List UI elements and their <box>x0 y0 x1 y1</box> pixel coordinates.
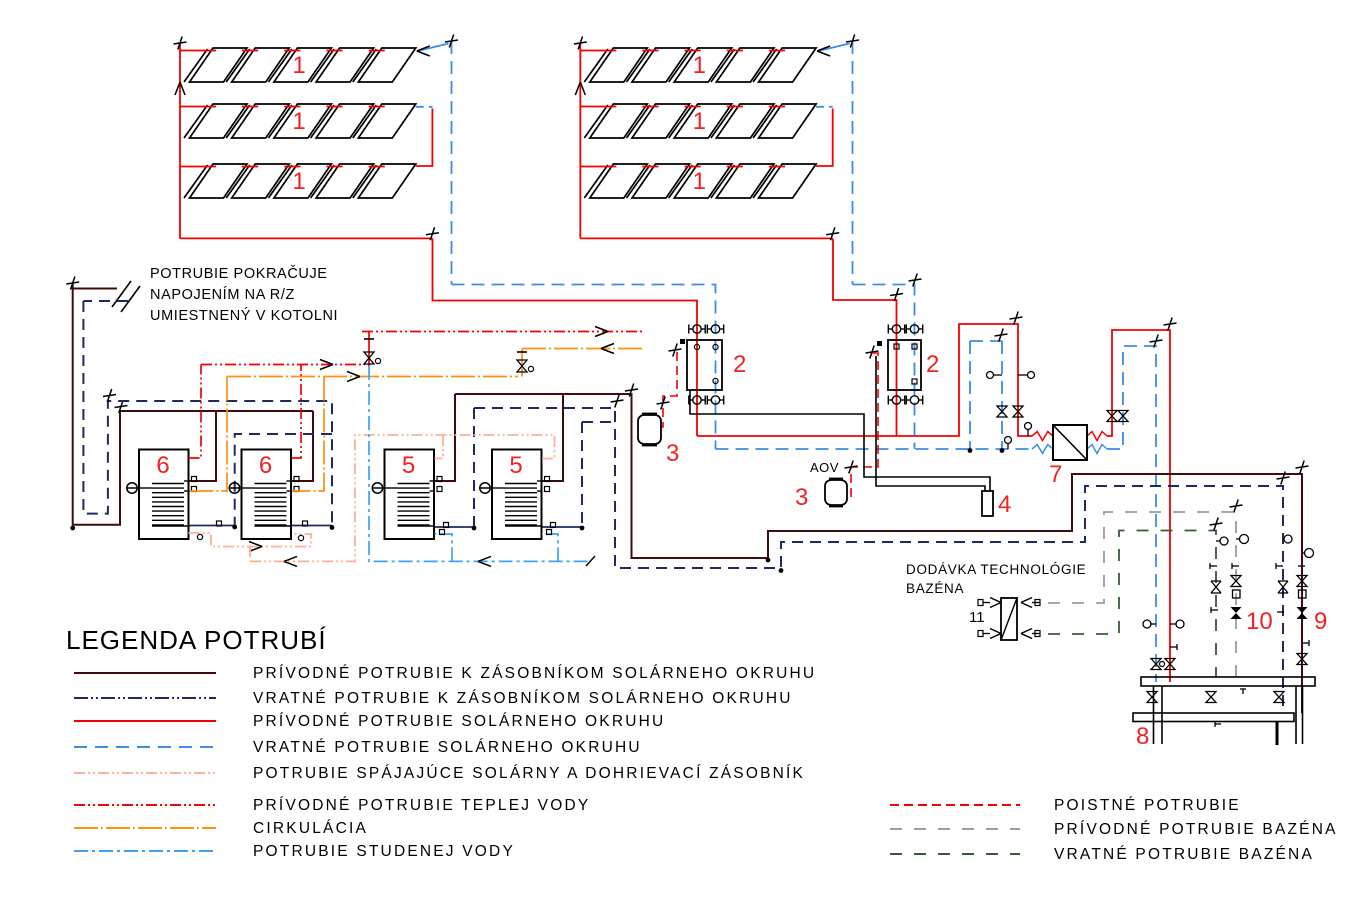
node: cross at red corner near U2b <box>890 288 903 301</box>
node: cross maroon top-left <box>66 277 79 290</box>
wire: circulation riser to tank T6a <box>189 377 228 492</box>
node: cross on blue pipe right of U7 <box>1150 335 1163 348</box>
label 11 <box>969 609 985 626</box>
flow arrow right hot water out <box>595 327 608 337</box>
label 1 row A2 <box>292 108 305 135</box>
svg-text:5: 5 <box>509 452 522 479</box>
svg-text:3: 3 <box>666 440 679 467</box>
collector field B: red supply riser <box>579 43 581 238</box>
red supply stub to row B2 <box>580 106 616 108</box>
node: cross on blue bypass <box>995 329 1008 342</box>
collector row B3 (5 panels, ref 1) <box>584 164 816 198</box>
valve on red pool pipe <box>1160 659 1176 670</box>
valve on blue pool pipe <box>1151 659 1161 670</box>
wire: red safety pipe U2a to expansion vessel V3a <box>662 352 678 427</box>
flow arrow left cold water <box>478 556 491 566</box>
wire: red solar supply, left array down to exchanger U2a <box>433 238 698 436</box>
node: junction dots blue bypass <box>968 448 1005 453</box>
node: dot navy jog <box>779 568 784 573</box>
wire: hot water line to building <box>362 331 645 333</box>
end tick cold water <box>586 556 595 566</box>
node: cross top of red riser B <box>574 37 587 50</box>
sensor circles at U7 left <box>1005 423 1032 450</box>
node: cross maroon corner <box>115 400 128 413</box>
tee symbol on red pool pipe <box>1170 644 1177 650</box>
red collector outlet bottom B <box>580 237 832 239</box>
svg-text:8: 8 <box>1136 723 1149 750</box>
red supply stub to row B3 <box>580 166 616 168</box>
legend title <box>66 625 327 655</box>
sensor cross at U2b left <box>866 341 883 359</box>
legend row: PRÍVODNÉ POTRUBIE SOLÁRNEHO OKRUHU <box>74 713 665 730</box>
pipe break symbol // <box>112 281 140 312</box>
node: cross navy corner left <box>103 389 116 402</box>
svg-text:9: 9 <box>1314 608 1327 635</box>
valve on hot water line <box>364 332 381 367</box>
wire: red safety pipe U2b to vessel V3b (AOV) <box>848 353 879 498</box>
flow arrow up on red riser A <box>175 82 185 95</box>
below-bar tees <box>1215 689 1246 727</box>
legend row: PRÍVODNÉ POTRUBIE K ZÁSOBNÍKOM SOLÁRNEHO OKRUHU <box>74 665 816 682</box>
node: cross on bottom red pipe A <box>426 227 439 240</box>
storage tank T5b (label 5) <box>480 450 550 540</box>
svg-text:POISTNÉ POTRUBIE: POISTNÉ POTRUBIE <box>1054 797 1241 814</box>
node: cross top of blue riser B <box>846 35 859 48</box>
wire: tank T6b bottom port line <box>292 521 334 530</box>
wire: gray pool supply from U11 <box>1048 512 1236 677</box>
svg-text:6: 6 <box>156 452 169 479</box>
wire: hot water riser from tank T6a <box>189 365 202 459</box>
component V4 (label 4) <box>982 491 993 516</box>
sensor cross at U2a left <box>669 339 686 357</box>
label 2 (left) <box>733 351 746 378</box>
sensor circles near bypass <box>987 372 1035 379</box>
red link row A2 to row A3 <box>416 109 433 167</box>
svg-text:1: 1 <box>292 168 305 195</box>
label 8 <box>1136 723 1149 750</box>
flex connector blue from U7 right <box>1087 445 1107 454</box>
svg-text:VRATNÉ POTRUBIE K ZÁSOBNÍKOM S: VRATNÉ POTRUBIE K ZÁSOBNÍKOM SOLÁRNEHO O… <box>253 690 793 707</box>
svg-text:4: 4 <box>998 491 1011 518</box>
label 1 row B1 <box>693 52 706 79</box>
collector row A3 (5 panels, ref 1) <box>184 164 416 198</box>
svg-text:POTRUBIE POKRAČUJE: POTRUBIE POKRAČUJE <box>150 265 328 282</box>
svg-text:POTRUBIE STUDENEJ VODY: POTRUBIE STUDENEJ VODY <box>253 843 515 860</box>
wire: navy branch tank T5b <box>582 422 615 527</box>
wire: maroon drop to tank T6a <box>189 411 217 481</box>
wire: cold water branch tank T5a <box>435 530 453 562</box>
svg-text:PRÍVODNÉ POTRUBIE K ZÁSOBNÍKOM: PRÍVODNÉ POTRUBIE K ZÁSOBNÍKOM SOLÁRNEHO… <box>253 665 816 682</box>
below-bar valves <box>1147 692 1284 703</box>
valve column 9 on maroon pipe <box>1297 549 1314 620</box>
heat exchanger U2b (label 2) <box>888 325 923 405</box>
svg-text:LEGENDA POTRUBÍ: LEGENDA POTRUBÍ <box>66 625 327 655</box>
blue return connection row A1 with arrow <box>417 44 449 57</box>
pool legs right <box>1296 686 1303 744</box>
wire: blue solar return header to exchanger U7 <box>716 448 1033 450</box>
collector row B1 (5 panels, ref 1) <box>584 48 816 82</box>
node: cross gray <box>1230 500 1243 513</box>
red supply stub to row B1 <box>580 50 616 52</box>
wire: tank T5b bottom port line <box>542 523 584 531</box>
node: cross green <box>1210 518 1223 531</box>
legend row: POTRUBIE STUDENEJ VODY <box>74 843 515 860</box>
blue return connection row B1 with arrow <box>817 44 849 57</box>
wire: blue solar return, right array to exchanger U2b <box>853 285 915 450</box>
wire: salmon drop to tank T5a top <box>435 435 444 459</box>
wire: blue solar return, left array to exchanger U2a <box>452 285 716 450</box>
node: dot maroon jog <box>766 558 771 563</box>
wire: maroon drop to tank T5b <box>542 394 563 481</box>
label 3 (AOV vessel) <box>795 484 808 511</box>
legend row: VRATNÉ POTRUBIE BAZÉNA <box>890 846 1314 863</box>
svg-text:11: 11 <box>969 609 985 626</box>
wire: tank T5a bottom port line <box>435 523 477 531</box>
heat exchanger U7 (label 7) <box>1053 425 1087 460</box>
svg-text:PRÍVODNÉ POTRUBIE SOLÁRNEHO OK: PRÍVODNÉ POTRUBIE SOLÁRNEHO OKRUHU <box>253 713 665 730</box>
svg-text:1: 1 <box>693 52 706 79</box>
lower symbols on maroon column <box>1297 640 1309 665</box>
node: cross on navy/maroon near tanks5 <box>611 395 624 408</box>
red supply stub to row A3 <box>180 166 216 168</box>
wire: maroon drop to tank T5a <box>435 394 456 481</box>
flow arrow right on salmon link <box>249 542 262 552</box>
svg-text:3: 3 <box>795 484 808 511</box>
blue stub row B2 <box>816 106 833 108</box>
collector row B2 (5 panels, ref 1) <box>584 104 816 138</box>
valve column 10 on gray pipe <box>1231 535 1249 620</box>
collector field A: blue return riser (dashed) <box>451 41 453 285</box>
label 1 row B3 <box>693 168 706 195</box>
red link row B2 to row B3 <box>816 109 833 167</box>
wire: cold water main <box>369 366 590 561</box>
wire: cold water branch tank T5b <box>542 530 558 562</box>
U11 left ports with arrows <box>978 598 1001 639</box>
flow arrow right hot water <box>320 360 333 370</box>
wire: navy drop tank T5a <box>473 408 475 527</box>
node: cross maroon before pool drop <box>1296 461 1309 474</box>
storage tank T6a (label 6) <box>127 450 197 540</box>
annotation text: pool technology supply <box>906 562 1086 596</box>
valves on blue bypass <box>997 406 1023 417</box>
legend row: PRÍVODNÉ POTRUBIE TEPLEJ VODY <box>74 797 590 814</box>
pool bottom bar <box>1133 713 1294 722</box>
collector row A1 (5 panels, ref 1) <box>184 48 416 82</box>
red collector outlet bottom A <box>180 237 432 239</box>
svg-text:1: 1 <box>292 108 305 135</box>
svg-text:7: 7 <box>1049 461 1062 488</box>
svg-text:6: 6 <box>259 452 272 479</box>
wire: maroon header tanks 5 and to pool circuit <box>455 394 1302 713</box>
svg-text:VRATNÉ POTRUBIE BAZÉNA: VRATNÉ POTRUBIE BAZÉNA <box>1054 846 1314 863</box>
flow arrow left circulation <box>601 344 614 354</box>
wire: circulation header <box>227 376 518 378</box>
svg-text:BAZÉNA: BAZÉNA <box>906 581 964 596</box>
symbols on green column <box>1210 537 1228 613</box>
svg-text:1: 1 <box>292 52 305 79</box>
label 7 <box>1049 461 1062 488</box>
wire: red solar supply header to exchanger U7 <box>697 324 1032 436</box>
blue stub row A2 <box>416 106 433 108</box>
storage tank T5a (label 5) <box>372 450 442 540</box>
red supply stub to row A2 <box>180 106 216 108</box>
svg-text:2: 2 <box>733 351 746 378</box>
svg-text:VRATNÉ POTRUBIE SOLÁRNEHO OKRU: VRATNÉ POTRUBIE SOLÁRNEHO OKRUHU <box>253 739 642 756</box>
node: cross navy before pool drop <box>1277 472 1290 485</box>
label 9 <box>1314 608 1327 635</box>
svg-text:DODÁVKA TECHNOLÓGIE: DODÁVKA TECHNOLÓGIE <box>906 562 1086 577</box>
label 1 row A1 <box>292 52 305 79</box>
collector field B: blue return riser (dashed) <box>852 41 854 285</box>
valve on circulation line <box>517 349 534 377</box>
label 10 <box>1246 608 1273 635</box>
flow arrow right circulation <box>347 372 360 382</box>
wire: navy return tanks 5 loop to pool circuit <box>474 408 1283 712</box>
collector row A2 (5 panels, ref 1) <box>184 104 416 138</box>
svg-text:PRÍVODNÉ POTRUBIE TEPLEJ VODY: PRÍVODNÉ POTRUBIE TEPLEJ VODY <box>253 797 590 814</box>
svg-text:2: 2 <box>926 351 939 378</box>
svg-text:NAPOJENÍM NA R/Z: NAPOJENÍM NA R/Z <box>150 286 295 303</box>
svg-text:POTRUBIE SPÁJAJÚCE SOLÁRNY A D: POTRUBIE SPÁJAJÚCE SOLÁRNY A DOHRIEVACÍ … <box>253 765 805 782</box>
expansion vessel V3b AOV (label 3) <box>825 479 847 507</box>
legend row: VRATNÉ POTRUBIE K ZÁSOBNÍKOM SOLÁRNEHO OKRUHU <box>74 690 793 707</box>
node: cross at AOV <box>845 461 858 474</box>
svg-text:1: 1 <box>693 108 706 135</box>
U11 right ports with arrows <box>1021 598 1040 639</box>
pool legs left <box>1154 686 1163 744</box>
svg-text:PRÍVODNÉ POTRUBIE BAZÉNA: PRÍVODNÉ POTRUBIE BAZÉNA <box>1054 821 1338 838</box>
wire: navy return from tanks 6 to R/Z break <box>83 301 332 528</box>
wire: circulation riser to tank T6b <box>292 377 324 492</box>
svg-text:5: 5 <box>402 452 415 479</box>
label 2 (right) <box>926 351 939 378</box>
wire: black impulse pipe from U2b to vessel V4 <box>876 356 985 491</box>
node: cross top of blue riser A <box>445 35 458 48</box>
label 4 <box>998 491 1011 518</box>
svg-text:AOV: AOV <box>810 460 839 475</box>
wire: maroon drop to tank T6b <box>292 411 313 481</box>
wire: tank T6a bottom port line <box>189 521 238 529</box>
port circles salmon <box>197 534 303 540</box>
label 1 row A3 <box>292 168 305 195</box>
node: cross maroon right corner <box>625 384 638 397</box>
svg-text:UMIESTNENÝ V KOTOLNI: UMIESTNENÝ V KOTOLNI <box>150 307 338 324</box>
node: cross on red pipe right of U7 <box>1164 318 1177 331</box>
node: cross on bottom red pipe B <box>826 227 839 240</box>
pool leg bottom bar <box>1276 722 1279 746</box>
flow arrow left on salmon main <box>284 556 297 566</box>
legend row: POTRUBIE SPÁJAJÚCE SOLÁRNY A DOHRIEVACÍ ZÁSOBNÍK <box>74 765 805 782</box>
sensor circle on blue pool pipe <box>1143 620 1156 628</box>
legend row: CIRKULÁCIA <box>74 820 368 837</box>
red supply stub to row A1 <box>180 50 216 52</box>
heat exchanger U2a (label 2) <box>687 325 724 405</box>
wire: hot water riser from tank T6b <box>292 365 301 459</box>
wire: red solar supply from U7 to pool <box>1107 330 1170 682</box>
svg-text:1: 1 <box>693 168 706 195</box>
flex connector red to U7 left <box>1032 432 1053 441</box>
wire: salmon link tank T6a bottom to T6b <box>189 533 312 547</box>
label 1 row B2 <box>693 108 706 135</box>
svg-text:CIRKULÁCIA: CIRKULÁCIA <box>253 820 368 837</box>
wire: black impulse pipe from U2a to vessel V4 <box>690 390 990 491</box>
wire: blue return from U7 to pool <box>1107 346 1156 682</box>
wire: salmon main from tanks6 to tanks5 tops <box>250 435 555 561</box>
pool top bar (label 8) <box>1141 677 1315 686</box>
wire: hot water header to valve <box>201 364 365 366</box>
node: cross top of red riser A <box>174 37 187 50</box>
sensor circle on red pool pipe <box>1170 620 1184 628</box>
wire: circulation from building <box>522 348 643 350</box>
wire: navy branch to tank T6a bottom <box>235 434 332 527</box>
legend row: PRÍVODNÉ POTRUBIE BAZÉNA <box>890 821 1338 838</box>
expansion vessel V3a (label 3) <box>638 414 661 446</box>
flow arrow up on red riser B <box>575 82 585 95</box>
annotation text: pipe continues to R/Z <box>150 265 338 324</box>
legend row: VRATNÉ POTRUBIE SOLÁRNEHO OKRUHU <box>74 739 642 756</box>
heat exchanger U11 (label 11) <box>1001 598 1017 640</box>
flex connector blue to U7 left <box>1032 445 1053 454</box>
storage tank T6b (label 6) <box>229 450 299 540</box>
text AOV <box>810 460 839 475</box>
wire: maroon supply from R/Z break to tanks 6 <box>73 284 313 525</box>
svg-text:10: 10 <box>1246 608 1273 635</box>
symbols on navy pool column <box>1276 535 1292 612</box>
valves right of U7 <box>1107 411 1128 422</box>
wire: red solar supply, right array down to exchanger U2b <box>833 239 897 436</box>
legend row: POISTNÉ POTRUBIE <box>890 797 1241 814</box>
label 3 (left vessel) <box>666 440 679 467</box>
node: cross on safety pipe V3a <box>657 397 670 410</box>
flex connector red from U7 right <box>1087 432 1107 441</box>
node: cross on blue pipe near U2b <box>909 274 922 287</box>
collector field A: red supply riser <box>179 43 181 238</box>
node: cross on red loop near U7 <box>1010 312 1023 325</box>
bypass: blue verticals with valves near U7 <box>970 341 1002 449</box>
wire: green pool return to U11 <box>1048 531 1216 678</box>
node: dot maroon bottom-left <box>70 526 75 531</box>
